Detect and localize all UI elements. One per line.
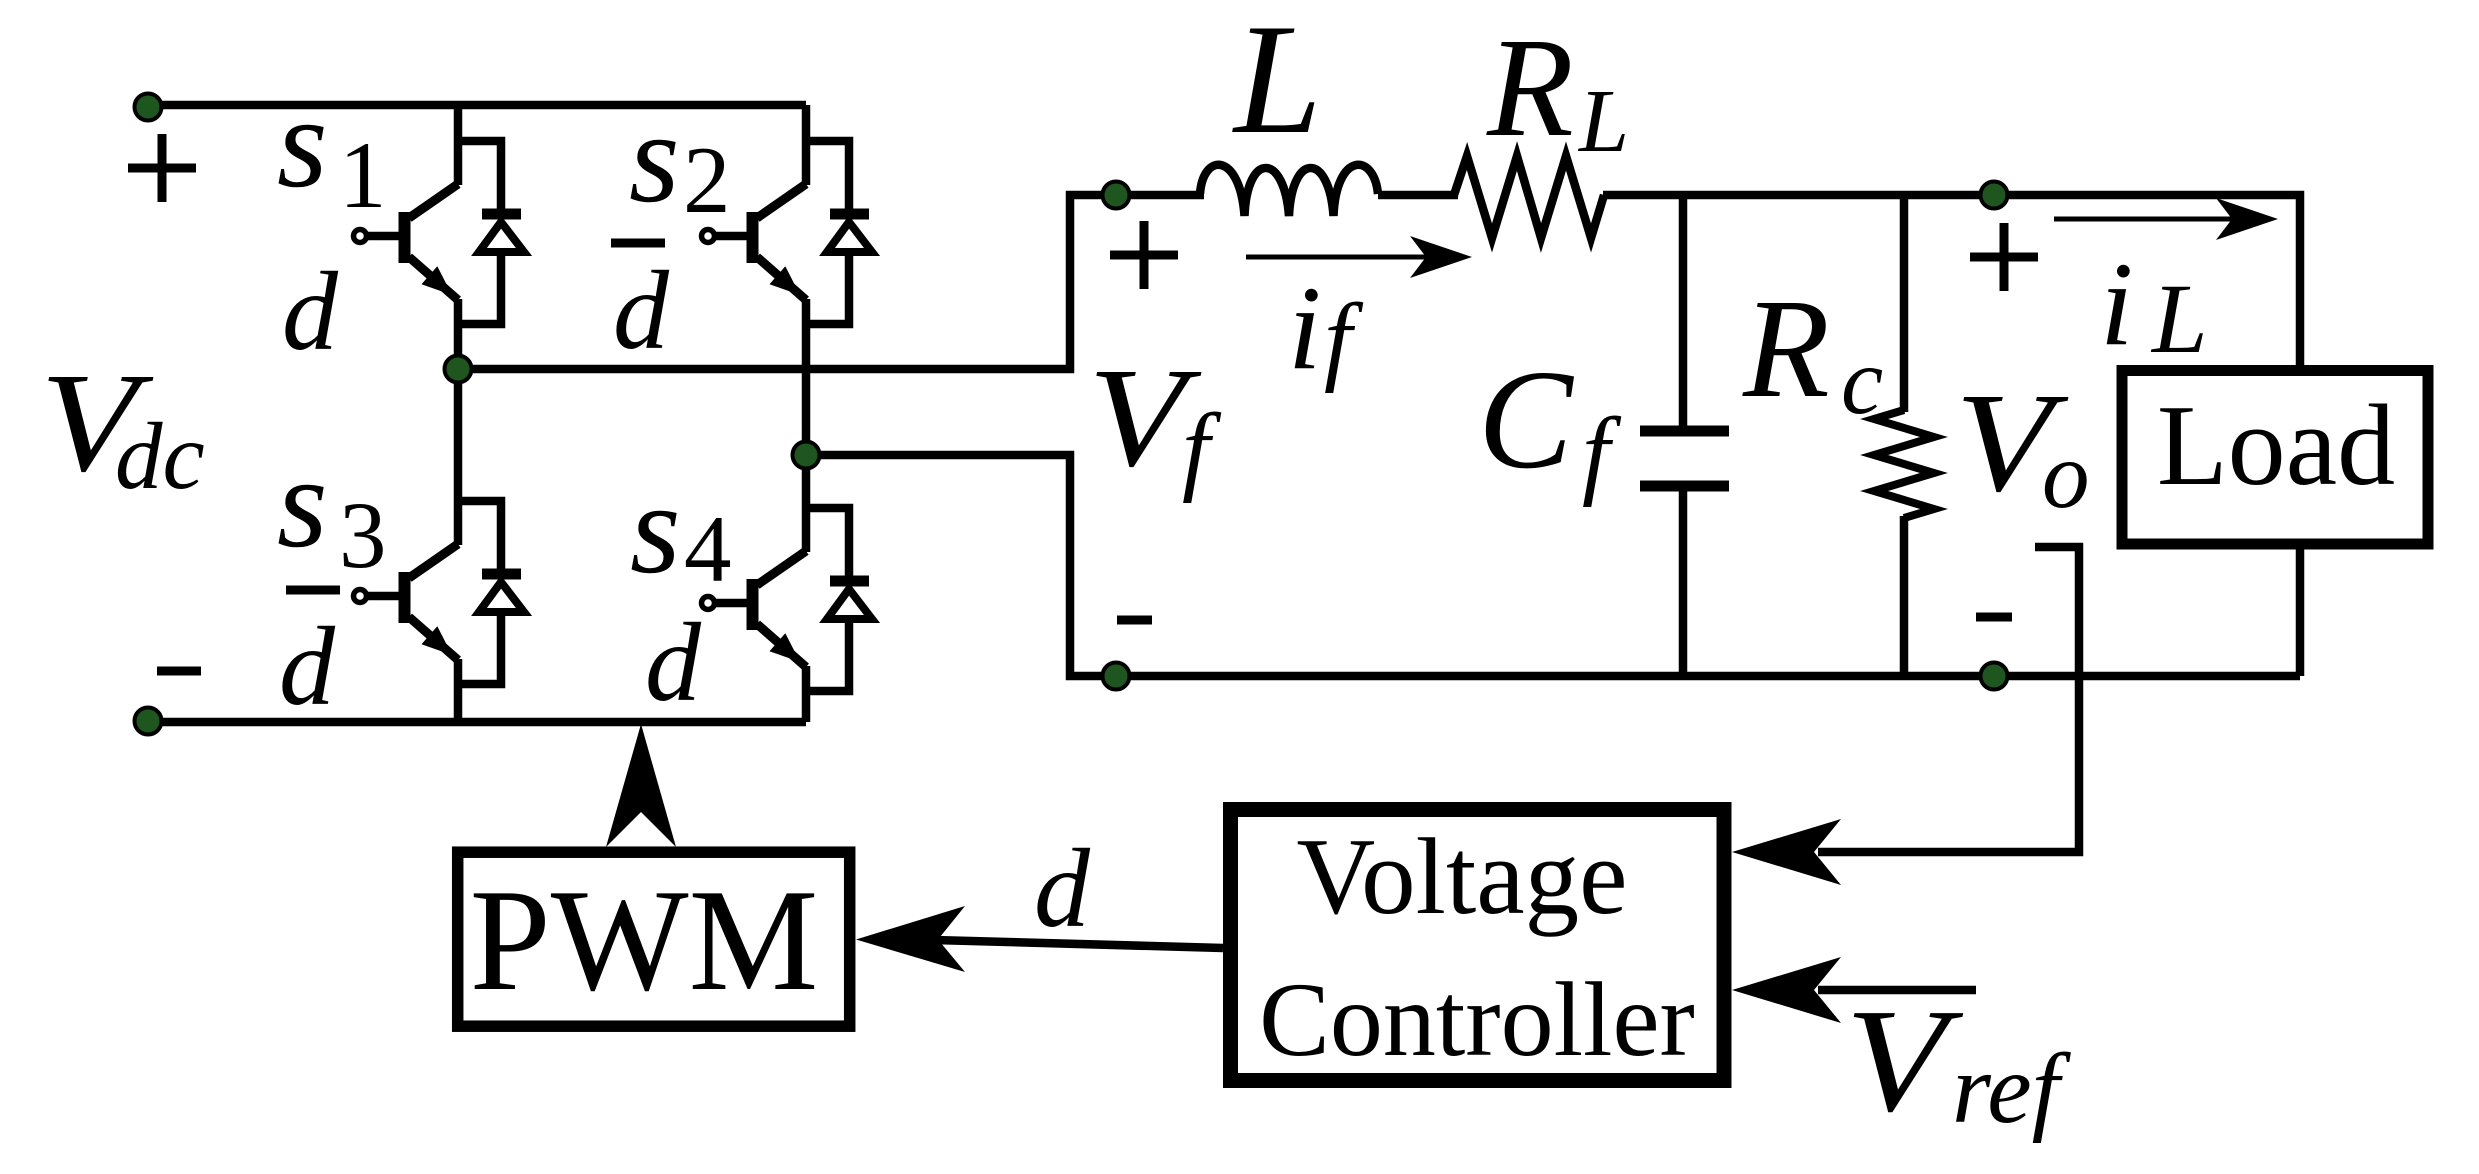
transistor S4 xyxy=(702,551,807,667)
svg-text:s: s xyxy=(630,457,681,601)
label Vo xyxy=(1955,363,2090,528)
wire right leg upper xyxy=(802,105,811,185)
svg-text:V: V xyxy=(1845,979,1964,1143)
svg-text:R: R xyxy=(1742,269,1830,427)
node N3 left leg midpoint xyxy=(445,356,472,383)
svg-text:2: 2 xyxy=(683,127,731,233)
label d-bar gate S2 xyxy=(611,243,670,373)
label Vf xyxy=(1088,338,1222,504)
svg-text:d: d xyxy=(279,605,336,729)
label Vref xyxy=(1845,979,2072,1144)
wire left leg mid xyxy=(454,299,463,545)
transistor S2 xyxy=(702,184,807,300)
wire bottom dc rail xyxy=(148,718,806,727)
arrow Vo into controller xyxy=(1732,819,1841,885)
svg-text:o: o xyxy=(2042,422,2090,528)
label Vdc xyxy=(40,343,205,509)
wire left leg upper xyxy=(454,105,463,185)
svg-text:s: s xyxy=(629,86,680,230)
svg-text:d: d xyxy=(645,601,702,725)
wire node to inductor xyxy=(1378,191,1458,200)
diode D1 xyxy=(458,141,524,324)
svg-text:s: s xyxy=(277,71,328,215)
plus sign Vdc xyxy=(128,134,196,202)
diode D2 xyxy=(806,141,872,324)
wire Vo sense tap xyxy=(1818,547,2079,852)
arrow if xyxy=(1246,236,1472,278)
label s3 xyxy=(277,431,387,588)
svg-text:PWM: PWM xyxy=(470,859,819,1021)
diode D3 xyxy=(458,501,524,684)
arrow Vref into controller xyxy=(1732,957,1841,1023)
wire d controller to PWM xyxy=(934,940,1223,948)
arrow d into PWM xyxy=(856,906,965,972)
inductor L xyxy=(1200,165,1378,216)
wire bridge output A to filter xyxy=(458,195,1204,369)
label s2 xyxy=(629,86,731,233)
svg-text:L: L xyxy=(2150,263,2208,374)
wire Vref input xyxy=(1818,986,1976,995)
minus sign Vdc xyxy=(157,667,201,676)
load box xyxy=(2122,371,2428,545)
node N2 bottom left xyxy=(135,708,162,735)
svg-text:3: 3 xyxy=(339,482,387,588)
label d-bar gate S3 xyxy=(279,590,340,729)
wire right leg mid xyxy=(802,299,811,552)
wire bridge output B to filter bottom xyxy=(806,455,2300,676)
svg-text:R: R xyxy=(1486,8,1574,166)
svg-text:d: d xyxy=(1034,827,1091,951)
svg-text:L: L xyxy=(1232,0,1322,167)
svg-text:i: i xyxy=(1288,261,1321,394)
wire left leg lower xyxy=(454,659,463,722)
resistor Rc xyxy=(1874,195,1934,676)
transistor S1 xyxy=(354,184,459,300)
capacitor Cf xyxy=(1640,195,1729,676)
svg-text:d: d xyxy=(613,249,670,373)
resistor RL xyxy=(1454,156,1604,238)
label Cf xyxy=(1478,340,1622,508)
node N4 right leg midpoint xyxy=(793,442,820,469)
node N1 top left xyxy=(135,94,162,121)
minus sign Vf xyxy=(1117,616,1152,625)
plus sign Vf xyxy=(1110,221,1178,289)
svg-text:1: 1 xyxy=(339,122,387,228)
label s4 xyxy=(630,457,732,602)
wire top dc rail xyxy=(148,101,806,110)
svg-text:d: d xyxy=(282,250,339,374)
wire filter top rail xyxy=(1603,195,2300,368)
wire load bottom xyxy=(2296,541,2305,676)
PWM box xyxy=(458,852,850,1026)
node N5 Vf plus terminal xyxy=(1103,182,1130,209)
svg-text:Voltage: Voltage xyxy=(1297,816,1628,937)
node N8 Vf minus terminal xyxy=(1103,663,1130,690)
svg-text:ref: ref xyxy=(1952,1033,2072,1144)
transistor S3 xyxy=(354,544,459,660)
svg-text:C: C xyxy=(1478,340,1575,498)
Voltage Controller box xyxy=(1231,810,1725,1081)
svg-text:Load: Load xyxy=(2157,382,2395,510)
svg-text:dc: dc xyxy=(115,403,205,509)
svg-text:4: 4 xyxy=(684,496,732,602)
plus sign Vo xyxy=(1970,223,2038,291)
label if xyxy=(1288,261,1364,394)
label Rc xyxy=(1742,269,1883,434)
svg-text:L: L xyxy=(1577,72,1629,171)
arrow iL xyxy=(2054,198,2278,240)
svg-text:s: s xyxy=(277,431,328,575)
label iL xyxy=(2100,237,2208,374)
svg-text:Controller: Controller xyxy=(1259,961,1695,1078)
svg-text:c: c xyxy=(1841,328,1883,434)
arrow PWM to bridge xyxy=(606,724,676,847)
label RL xyxy=(1486,8,1629,171)
wire right leg lower xyxy=(802,666,811,722)
node N7 Vo minus terminal xyxy=(1981,663,2008,690)
node N6 Vo plus terminal xyxy=(1981,182,2008,209)
minus sign Vo xyxy=(1976,613,2012,622)
svg-text:i: i xyxy=(2100,237,2133,370)
label s1 xyxy=(277,71,387,228)
diode D4 xyxy=(806,508,872,691)
